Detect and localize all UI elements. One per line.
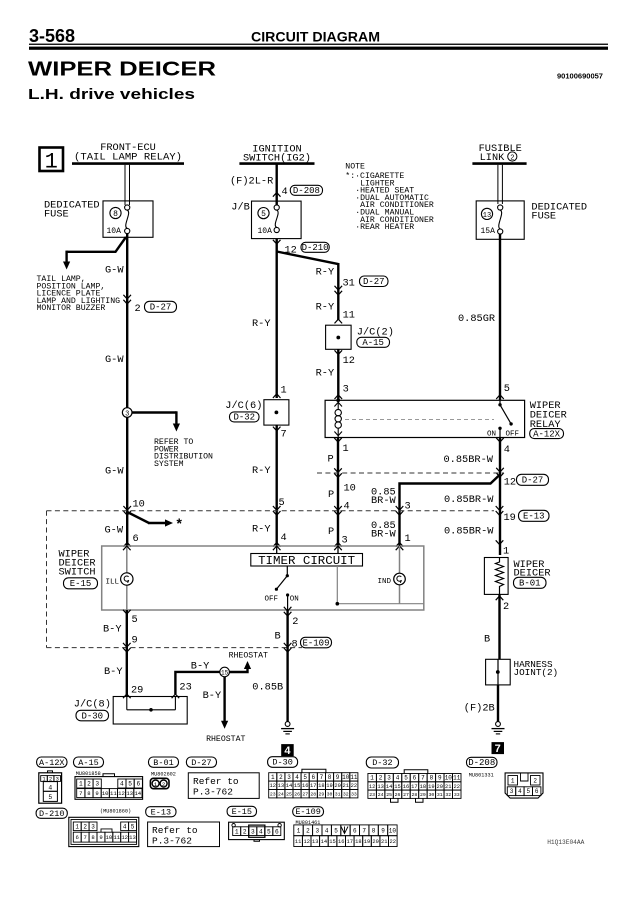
svg-text:6: 6 — [136, 781, 140, 788]
svg-text:7: 7 — [79, 790, 82, 797]
svg-text:5: 5 — [48, 794, 52, 801]
label IGNITION SWITCH(IG2) — [243, 144, 311, 165]
connector label oval D-210 bottom — [36, 808, 67, 818]
svg-text:D-32: D-32 — [372, 758, 392, 768]
svg-text:0.85BR-W: 0.85BR-W — [444, 526, 494, 538]
connector label oval D-32 bottom — [366, 757, 398, 768]
wire 0.85GR fuse13 to relay — [499, 234, 501, 400]
connector pinout E-109 — [294, 825, 397, 847]
svg-text:13: 13 — [377, 784, 383, 790]
svg-text:90100690057: 90100690057 — [557, 72, 603, 81]
svg-text:SYSTEM: SYSTEM — [154, 460, 184, 469]
ground id black box 7 — [492, 742, 505, 754]
svg-text:22: 22 — [351, 783, 357, 789]
svg-text:7: 7 — [320, 774, 324, 781]
svg-text:D-30: D-30 — [81, 711, 103, 721]
connector label oval D-30 bottom — [268, 757, 298, 768]
connector pinout B-01 two round pins — [150, 778, 169, 788]
svg-text:5: 5 — [128, 781, 132, 788]
wire label P lower and pin 3 switch entry — [328, 526, 348, 547]
svg-text:1: 1 — [370, 775, 374, 782]
ground symbol center — [285, 722, 290, 727]
inline connector on P wire at second dashed boundary — [334, 506, 342, 510]
svg-text:B-Y: B-Y — [191, 661, 210, 673]
svg-text:9: 9 — [438, 775, 442, 782]
wire BR-W stub and gray wire through IND lamp — [399, 546, 401, 604]
svg-text:3: 3 — [510, 788, 514, 795]
svg-text:B: B — [275, 631, 281, 643]
relay coil — [334, 398, 342, 437]
svg-text:1: 1 — [503, 546, 509, 558]
svg-text:A-12X: A-12X — [39, 758, 65, 768]
junction block J/B with fuse 5 10A — [231, 201, 301, 239]
dashed harness boundary bottom — [47, 647, 303, 649]
wire double lead from FRONT-ECU to fuse 8 — [125, 165, 130, 205]
svg-text:E-109: E-109 — [295, 807, 321, 817]
wire (F)2B to ground — [497, 685, 499, 722]
timer circuit box — [251, 554, 363, 569]
svg-text:4: 4 — [282, 186, 288, 198]
svg-text:30: 30 — [327, 791, 333, 797]
connector pinout D-208 — [505, 773, 543, 798]
svg-text:0.85BR-W: 0.85BR-W — [444, 494, 494, 506]
svg-text:25: 25 — [386, 792, 392, 798]
svg-text:10A: 10A — [107, 227, 122, 236]
svg-text:3: 3 — [125, 410, 129, 418]
svg-text:33: 33 — [454, 792, 460, 798]
svg-text:29: 29 — [319, 791, 325, 797]
svg-text:12: 12 — [369, 784, 375, 790]
wire from node 15 down to rheostat — [221, 677, 228, 729]
wire R-Y J/B to J/C(6) — [276, 239, 278, 398]
svg-text:G-W: G-W — [105, 354, 124, 366]
connector label oval E-109 bottom — [293, 807, 324, 817]
svg-text:(MU801860): (MU801860) — [100, 809, 131, 815]
svg-text:BR-W: BR-W — [371, 529, 397, 541]
svg-text:D-30: D-30 — [272, 758, 292, 768]
fuse F8 10A dedicated fuse box — [103, 201, 153, 237]
relay switch contact ON OFF — [487, 400, 519, 438]
svg-text:28: 28 — [412, 792, 418, 798]
svg-text:16: 16 — [302, 783, 308, 789]
inline connector pin 10 on G-W wire at dashed boundary — [123, 499, 144, 516]
svg-text:6: 6 — [275, 828, 279, 835]
svg-text:17: 17 — [411, 784, 417, 790]
svg-text:28: 28 — [310, 791, 316, 797]
relay box WIPER DEICER RELAY A-12X — [325, 400, 524, 437]
svg-text:1: 1 — [297, 827, 301, 834]
svg-text:13: 13 — [312, 839, 318, 845]
switch exit pin 5 — [123, 610, 138, 626]
label DEDICATED FUSE left — [44, 200, 100, 221]
svg-text:22: 22 — [390, 839, 396, 845]
ILL lamp with label — [106, 573, 134, 587]
svg-text:20: 20 — [372, 839, 378, 845]
svg-text:23: 23 — [270, 791, 276, 797]
svg-text:12: 12 — [504, 477, 516, 489]
svg-text:3: 3 — [91, 823, 95, 830]
svg-text:R-Y: R-Y — [316, 267, 335, 279]
svg-text:12: 12 — [343, 355, 355, 367]
wire IG2 to J/B — [276, 164, 278, 205]
svg-text:8: 8 — [430, 775, 434, 782]
svg-text:E-109: E-109 — [302, 638, 329, 648]
svg-text:14: 14 — [386, 784, 392, 790]
svg-text:2: 2 — [379, 775, 383, 782]
svg-text:R-Y: R-Y — [316, 368, 335, 380]
label WIPER DEICER RELAY A-12X — [530, 400, 567, 439]
pin 29 at J/C(8) entry — [123, 685, 143, 699]
svg-text:2: 2 — [306, 827, 310, 834]
svg-text:10: 10 — [342, 774, 350, 781]
connector exit pin 7 of J/C(6) — [273, 427, 287, 441]
svg-text:R-Y: R-Y — [316, 302, 335, 314]
svg-text:B-01: B-01 — [153, 758, 173, 768]
svg-text:5: 5 — [526, 788, 530, 795]
svg-text:16: 16 — [338, 839, 344, 845]
svg-text:G-W: G-W — [105, 466, 124, 478]
svg-text:19: 19 — [364, 839, 370, 845]
svg-text:33: 33 — [351, 791, 357, 797]
svg-text:A-15: A-15 — [78, 758, 98, 768]
svg-text:5: 5 — [267, 828, 271, 835]
chevron entries at switch box top — [123, 546, 131, 550]
svg-text:5: 5 — [504, 383, 510, 395]
svg-text:L.H. drive vehicles: L.H. drive vehicles — [28, 86, 195, 103]
svg-text:13: 13 — [278, 783, 284, 789]
svg-text:ILL: ILL — [106, 579, 120, 587]
svg-text:19: 19 — [428, 784, 434, 790]
relay coil entry pin 3 — [335, 384, 349, 400]
svg-text:8: 8 — [91, 834, 94, 841]
junction connector J/C(6) D-32 pin 1 — [225, 385, 289, 426]
svg-text:1: 1 — [75, 823, 79, 830]
svg-text:1: 1 — [271, 774, 275, 781]
svg-text:4: 4 — [284, 745, 291, 757]
svg-text:FUSE: FUSE — [531, 211, 556, 223]
svg-text:6: 6 — [353, 827, 357, 834]
note legend for asterisk options — [345, 163, 434, 233]
branch wire R-Y to J/C(2) column — [277, 252, 339, 265]
relay exit pin 4 — [496, 438, 510, 456]
svg-text:WIPER DEICER: WIPER DEICER — [28, 59, 217, 81]
svg-text:31: 31 — [437, 792, 443, 798]
svg-text:5: 5 — [132, 614, 138, 626]
svg-text:8: 8 — [87, 790, 90, 797]
svg-text:R-Y: R-Y — [252, 318, 271, 330]
svg-text:E-15: E-15 — [70, 579, 92, 589]
switch internal gray bus — [336, 566, 424, 606]
svg-text:6: 6 — [535, 788, 539, 795]
label HARNESS JOINT(2) — [514, 659, 559, 678]
wire label R-Y and pin 4 at switch entry — [252, 524, 287, 547]
svg-text:B-Y: B-Y — [103, 624, 122, 636]
relay switch entry pin 5 — [496, 383, 510, 399]
svg-text:(TAIL LAMP RELAY): (TAIL LAMP RELAY) — [74, 152, 182, 164]
connector label oval A-12X — [37, 757, 67, 767]
svg-text:3: 3 — [95, 781, 99, 788]
svg-text:1: 1 — [405, 533, 411, 545]
IND lamp with label — [378, 573, 406, 586]
connector exit pin 12 D-210 — [273, 240, 329, 257]
svg-text:3: 3 — [387, 775, 391, 782]
svg-text:1: 1 — [511, 778, 515, 785]
inline connector pin 5 on R-Y at dashed boundary — [273, 497, 285, 515]
svg-text:27: 27 — [403, 792, 409, 798]
wire R-Y J/C(2) to relay — [337, 349, 339, 400]
svg-text:E-13: E-13 — [151, 807, 171, 817]
svg-text:J/B: J/B — [231, 202, 250, 214]
svg-text:BR-W: BR-W — [371, 495, 397, 507]
svg-text:9: 9 — [95, 790, 98, 797]
svg-text:RHEOSTAT: RHEOSTAT — [206, 735, 245, 744]
svg-text:7: 7 — [495, 743, 501, 755]
switch exit pin 2 marker — [284, 607, 299, 628]
svg-text:25: 25 — [286, 791, 292, 797]
svg-text:0.85GR: 0.85GR — [458, 313, 495, 325]
inline connector pin 12 D-27 on right wire — [496, 468, 548, 489]
svg-text:2: 2 — [503, 601, 509, 613]
svg-text:A-12X: A-12X — [533, 429, 561, 439]
inline connector pin 8 E-109 — [284, 637, 332, 652]
svg-text:ON: ON — [487, 431, 496, 439]
bus bar FRONT-ECU — [72, 162, 184, 165]
connector pinout D-210 — [69, 817, 139, 846]
svg-text:8: 8 — [292, 639, 298, 651]
svg-text:H1Q13E04AA: H1Q13E04AA — [547, 839, 584, 846]
connector entry pin 4 D-208 — [273, 185, 323, 198]
pin 10 label and wire label P mid — [328, 483, 356, 502]
svg-text:5: 5 — [261, 210, 266, 219]
svg-text:ON: ON — [290, 595, 299, 603]
svg-text:D-27: D-27 — [363, 277, 385, 287]
svg-text:7: 7 — [281, 429, 287, 441]
inline connector on P wire at first dashed boundary — [334, 468, 342, 472]
svg-text:9: 9 — [99, 834, 102, 841]
svg-text:26: 26 — [294, 791, 300, 797]
inline connector marker pin 2 D-27 on G-W wire — [123, 295, 176, 315]
svg-text:J/C(6): J/C(6) — [225, 400, 262, 412]
svg-text:E-13: E-13 — [523, 512, 545, 522]
svg-text:TIMER CIRCUIT: TIMER CIRCUIT — [258, 555, 355, 568]
wire 0.85BR-W branch from relay output to switch pin 1 — [400, 475, 501, 547]
numbered box 1 — [40, 148, 64, 175]
svg-text:10: 10 — [133, 499, 145, 511]
switch contact OFF ON in timer — [265, 566, 299, 610]
svg-text:14: 14 — [321, 839, 327, 845]
header rule thick — [29, 47, 608, 50]
svg-text:4: 4 — [259, 828, 263, 835]
connector label oval E-13 bottom — [146, 807, 176, 817]
dashed harness boundary top — [47, 510, 495, 512]
svg-text:15: 15 — [294, 783, 300, 789]
refer box E-13 — [148, 822, 220, 847]
svg-text:2: 2 — [135, 303, 141, 315]
svg-text:16: 16 — [403, 784, 409, 790]
svg-text:B-Y: B-Y — [203, 690, 222, 702]
svg-text:2: 2 — [83, 823, 87, 830]
fuse F13 15A dedicated fuse box — [476, 201, 524, 239]
wire R-Y J/C(6) to switch — [276, 425, 278, 546]
svg-text:4: 4 — [295, 774, 299, 781]
branch wire to asterisk option — [127, 512, 183, 534]
svg-text:P: P — [328, 454, 334, 466]
wire label 0.85 BR-W lower on branch — [371, 520, 397, 541]
svg-text:B-Y: B-Y — [104, 666, 123, 678]
svg-text:2: 2 — [243, 828, 247, 835]
refer box D-27 — [188, 773, 259, 799]
svg-text:10: 10 — [106, 834, 113, 841]
svg-text:23: 23 — [369, 792, 375, 798]
svg-text:8: 8 — [113, 210, 118, 219]
svg-text:*: * — [175, 518, 183, 534]
wire B-Y rheostat branch pin 23 — [172, 672, 220, 698]
svg-text:7: 7 — [421, 775, 425, 782]
svg-text:1: 1 — [79, 781, 83, 788]
svg-text:18: 18 — [355, 839, 361, 845]
wire double lead fusible link to fuse 13 — [498, 165, 503, 204]
svg-text:R-Y: R-Y — [252, 524, 271, 536]
svg-text:3: 3 — [251, 828, 255, 835]
svg-text:1: 1 — [235, 828, 239, 835]
connector label oval A-15 — [74, 757, 104, 767]
svg-text:11: 11 — [113, 834, 120, 841]
svg-text:D-27: D-27 — [150, 303, 172, 313]
label WIPER DEICER SWITCH E-15 — [59, 549, 98, 590]
junction node 3 on G-W wire — [122, 408, 132, 419]
svg-text:D-32: D-32 — [233, 413, 255, 423]
svg-text:1: 1 — [281, 385, 287, 397]
svg-text:27: 27 — [302, 791, 308, 797]
label WIPER DEICER B-01 — [514, 559, 551, 589]
inline connector on branch at dashed boundary — [396, 506, 404, 510]
connector label oval D-27 bottom — [186, 757, 216, 767]
svg-text:R-Y: R-Y — [252, 465, 271, 477]
svg-text:(F)2L-R: (F)2L-R — [230, 176, 273, 188]
connector pinout D-30 33 pin — [269, 769, 358, 798]
relay mechanical dashed link — [345, 419, 494, 421]
branch wire to tail lamp systems — [63, 237, 126, 270]
svg-text:10: 10 — [102, 790, 109, 797]
svg-text:IND: IND — [378, 578, 392, 586]
junction node 15 — [220, 667, 230, 677]
dashed harness boundary left — [46, 511, 48, 648]
svg-text:20: 20 — [334, 783, 340, 789]
svg-text:15: 15 — [394, 784, 400, 790]
svg-text:MU801331: MU801331 — [469, 773, 494, 779]
svg-text:23: 23 — [179, 682, 191, 694]
svg-text:FUSE: FUSE — [44, 209, 69, 221]
svg-text:18: 18 — [318, 783, 324, 789]
wire label 0.85 BR-W upper on branch — [371, 487, 397, 508]
wire from node 15 up to rheostat — [229, 661, 251, 672]
svg-text:13: 13 — [126, 790, 133, 797]
svg-text:17: 17 — [347, 839, 353, 845]
svg-text:P.3-762: P.3-762 — [152, 835, 192, 846]
connector pinout D-32 33 pin — [368, 770, 461, 802]
svg-text:11: 11 — [343, 310, 355, 322]
svg-text:(F)2B: (F)2B — [464, 703, 495, 715]
svg-text:20: 20 — [437, 784, 443, 790]
svg-text:RHEOSTAT: RHEOSTAT — [229, 652, 268, 661]
svg-text:MU802602: MU802602 — [151, 772, 176, 778]
pin 9 at dashed crossing — [123, 635, 138, 653]
svg-text:8: 8 — [372, 827, 376, 834]
svg-text:2: 2 — [292, 616, 298, 628]
svg-text:21: 21 — [342, 783, 348, 789]
branch wire refer to power distribution system — [132, 411, 180, 431]
wiper deicer exit pin 2 — [496, 596, 509, 613]
svg-text:OFF: OFF — [506, 431, 520, 439]
svg-text:5: 5 — [404, 775, 408, 782]
svg-text:0.85BR-W: 0.85BR-W — [444, 454, 494, 466]
wire G-W junction 3 to switch — [126, 417, 128, 546]
svg-text:3: 3 — [315, 827, 319, 834]
svg-text:3-568: 3-568 — [29, 26, 75, 46]
svg-text:B-01: B-01 — [519, 579, 541, 589]
junction connector J/C(2) A-15 pin 11 pin 12 — [326, 310, 394, 368]
svg-text:4: 4 — [504, 444, 510, 456]
svg-text:D-208: D-208 — [468, 758, 495, 768]
wire P stub into timer — [337, 546, 339, 554]
bus bar FUSIBLE LINK — [472, 162, 526, 165]
svg-text:CIRCUIT DIAGRAM: CIRCUIT DIAGRAM — [251, 30, 380, 45]
wire G-W fuse8 to junction 3 — [126, 234, 128, 409]
svg-text:11: 11 — [110, 790, 117, 797]
svg-text:D-210: D-210 — [39, 809, 65, 819]
svg-text:5: 5 — [131, 823, 135, 830]
wiper deicer entry pin 1 — [496, 540, 509, 557]
connector pinout A-12X relay socket — [39, 771, 62, 803]
svg-text:15: 15 — [329, 839, 335, 845]
svg-text:4: 4 — [518, 788, 522, 795]
svg-text:·REAR HEATER: ·REAR HEATER — [355, 223, 414, 232]
label FUSIBLE LINK 2 — [479, 143, 522, 164]
svg-text:10: 10 — [445, 775, 453, 782]
svg-text:0.85B: 0.85B — [252, 682, 283, 694]
svg-text:SWITCH: SWITCH — [59, 567, 96, 579]
svg-text:2: 2 — [510, 154, 514, 162]
svg-text:P: P — [328, 526, 334, 538]
wire R-Y stub into timer — [276, 546, 278, 554]
ground id black box 4 — [281, 744, 294, 756]
svg-text:A-15: A-15 — [362, 338, 384, 348]
svg-text:11: 11 — [295, 839, 301, 845]
svg-text:4: 4 — [123, 823, 127, 830]
wire B switch pin 2 to ground — [286, 610, 288, 722]
svg-text:B: B — [484, 634, 490, 646]
svg-text:G-W: G-W — [105, 265, 124, 277]
label FRONT-ECU (TAIL LAMP RELAY) — [74, 142, 182, 164]
svg-text:29: 29 — [131, 685, 143, 697]
svg-text:5: 5 — [334, 827, 338, 834]
wire P relay pin 1 to timer — [337, 438, 339, 547]
note refer to power distribution system — [154, 438, 213, 469]
svg-text:14: 14 — [286, 783, 292, 789]
svg-text:1: 1 — [45, 150, 58, 175]
svg-text:31: 31 — [335, 791, 341, 797]
svg-text:JOINT(2): JOINT(2) — [514, 667, 559, 678]
svg-text:29: 29 — [420, 792, 426, 798]
connector label oval E-15 bottom — [227, 806, 256, 816]
svg-text:12: 12 — [303, 839, 309, 845]
pin 1 switch entry on branch — [396, 533, 411, 547]
svg-text:9: 9 — [336, 774, 340, 781]
svg-text:5: 5 — [303, 774, 307, 781]
svg-text:1: 1 — [343, 443, 349, 455]
svg-text:14: 14 — [134, 790, 141, 797]
svg-text:MONITOR BUZZER: MONITOR BUZZER — [37, 304, 106, 313]
